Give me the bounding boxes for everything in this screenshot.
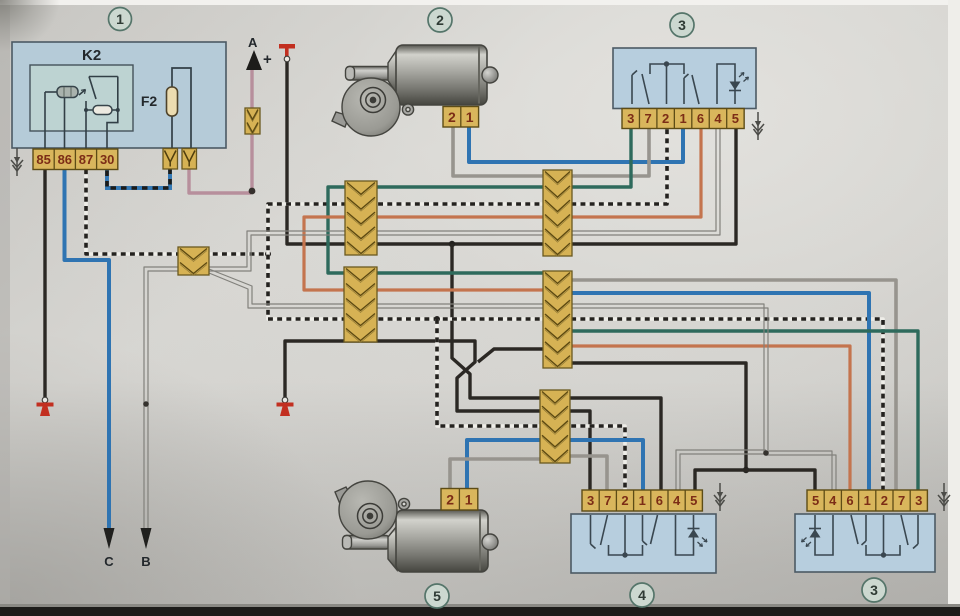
switch block 3 bottom internals (mirrored)	[802, 515, 919, 558]
wire black terminal 85 to ground	[43, 160, 46, 397]
fuse F2	[141, 87, 178, 116]
svg-text:85: 85	[36, 152, 50, 167]
wire white junction to block3b t4 (line a)	[766, 451, 832, 492]
switch block 3 top internals	[632, 61, 749, 104]
svg-text:7: 7	[604, 493, 611, 508]
relay resistor	[93, 106, 112, 115]
wire black-white switch3 t2 to main run	[268, 120, 667, 319]
connector block lower-left	[344, 267, 377, 343]
ground switch 4	[714, 483, 726, 511]
svg-text:7: 7	[645, 111, 652, 126]
ground switch 3 top	[752, 112, 764, 140]
relay K2 inner box	[30, 65, 133, 131]
wire black-white main run to block3b t2	[562, 319, 883, 492]
junction white wire B	[143, 401, 149, 407]
svg-text:2: 2	[448, 109, 456, 125]
switch 3 top terminals	[622, 109, 744, 129]
wire white junction to block3b t4 (line b)	[766, 455, 836, 492]
svg-text:K2: K2	[82, 47, 101, 64]
svg-text:1: 1	[116, 11, 124, 27]
switch block 4 box	[571, 514, 716, 573]
label circle 1	[109, 8, 132, 31]
fuse connector right	[182, 149, 197, 170]
wire black-blue terminal 30 to fuse connector	[107, 160, 170, 188]
ground switch 3 bottom	[938, 483, 950, 511]
connector block central-lower	[543, 271, 572, 369]
svg-text:86: 86	[58, 152, 72, 167]
wire white connector to CL (line b)	[209, 273, 556, 308]
motor 5 terminals 2 1	[441, 489, 478, 511]
svg-text:4: 4	[714, 111, 722, 126]
svg-text:5: 5	[732, 111, 739, 126]
svg-text:A: A	[248, 35, 258, 50]
wire pink A-arrow down	[250, 70, 253, 192]
ground body left	[37, 397, 54, 416]
wire white junction to block4 t4 (line a)	[676, 450, 766, 492]
ground block 1	[11, 148, 23, 176]
junction pink	[249, 188, 256, 195]
wire blue CL to block3b t1	[558, 293, 869, 492]
motor 2 drawing	[332, 45, 498, 136]
wire orange switch3 t6 long run	[304, 120, 701, 290]
terminal strip 85 86 87 30	[33, 149, 118, 170]
svg-text:1: 1	[639, 493, 646, 508]
wire white connector to CL (line a)	[209, 269, 556, 304]
svg-text:B: B	[141, 554, 150, 569]
label circle 3 top	[670, 13, 694, 37]
junction black at connector	[449, 241, 455, 247]
wire black CL to riser	[558, 363, 746, 470]
junction resistor left	[84, 108, 88, 112]
svg-text:2: 2	[621, 493, 628, 508]
svg-text:4: 4	[829, 493, 837, 508]
wire black-white 87 branch	[86, 160, 268, 254]
relay K2 internals	[45, 77, 118, 161]
motor 2 terminals 2 1	[443, 107, 479, 128]
svg-text:3: 3	[627, 111, 634, 126]
motor 5 drawing	[335, 481, 498, 572]
wire black coil lead to 85	[45, 92, 57, 160]
junction dashed branch	[434, 316, 440, 322]
relay coil	[57, 87, 78, 98]
wire black from T-splice to switch 3 terminal 5	[287, 60, 736, 244]
wire black-white branch to block4 t2	[437, 319, 548, 426]
svg-text:87: 87	[79, 152, 93, 167]
wire gray CL to block3b t7	[558, 280, 896, 492]
wire gray motor5 t2 to BC	[450, 459, 548, 492]
connector block central-upper	[543, 170, 572, 257]
fuse connector left	[163, 149, 178, 170]
wire black U block4-5 to block3b-5	[695, 470, 815, 492]
wire gray BC to block4 t7	[562, 456, 607, 492]
svg-text:2: 2	[446, 491, 454, 507]
node T red splice	[279, 44, 295, 62]
svg-text:F2: F2	[141, 93, 158, 109]
wire black ground branch to block 4 terminal 3	[285, 341, 548, 411]
svg-text:C: C	[104, 554, 114, 569]
label circle 4	[630, 583, 654, 607]
wire white CL to junction (line a)	[558, 304, 764, 452]
wire black stub into CL connector	[478, 349, 556, 362]
label circle 3 bottom	[862, 578, 886, 602]
svg-text:1: 1	[466, 109, 474, 125]
connector small B	[178, 247, 209, 276]
wire white CL to junction (line b)	[558, 308, 768, 450]
svg-text:6: 6	[846, 493, 853, 508]
wire white switch3 t4 to B (line a)	[144, 120, 716, 530]
svg-text:3: 3	[678, 17, 686, 33]
svg-text:5: 5	[690, 493, 697, 508]
wire gray motor2 t2 to switch3 t7	[453, 120, 649, 176]
connector block bottom-central	[540, 390, 570, 464]
wire green CL to block3b t3	[558, 331, 918, 492]
switch block 4 internals (mirrored)	[591, 515, 708, 558]
node A plus feed arrow	[246, 35, 272, 70]
wire black BC to block 4 terminal 6	[562, 398, 661, 492]
svg-text:6: 6	[697, 111, 704, 126]
fuse F2 leads	[172, 68, 191, 149]
junction dashed 87	[265, 251, 271, 257]
wire blue motor5 t1 to BC	[467, 440, 548, 492]
svg-text:4: 4	[673, 493, 681, 508]
ground body middle	[277, 397, 294, 416]
label circle 2	[428, 8, 452, 32]
svg-text:3: 3	[915, 493, 922, 508]
switch 4 terminals	[582, 490, 702, 511]
svg-text:2: 2	[436, 12, 444, 28]
svg-text:2: 2	[881, 493, 888, 508]
svg-text:30: 30	[100, 152, 114, 167]
wire black-white BC to block4 t2	[562, 426, 625, 492]
svg-text:1: 1	[465, 491, 473, 507]
svg-text:7: 7	[898, 493, 905, 508]
arrow B	[141, 528, 152, 569]
wire blue motor2 t1 to switch3 t1	[469, 120, 683, 162]
svg-text:5: 5	[433, 588, 441, 604]
svg-text:1: 1	[864, 493, 871, 508]
svg-text:3: 3	[587, 493, 594, 508]
arrow C	[104, 528, 115, 569]
wire black branch to block 4 terminal 6	[452, 244, 548, 398]
junction white wires	[763, 450, 769, 456]
svg-text:5: 5	[812, 493, 819, 508]
relay block 1 box	[12, 42, 226, 148]
switch block 3 top box	[613, 48, 756, 109]
wire blue 86 to arrow C	[65, 160, 110, 530]
wire orange CL to block3b t6	[558, 346, 850, 492]
switch 3 bottom terminals	[807, 490, 927, 511]
junction resistor right	[116, 108, 120, 112]
wire black BC to block 4 terminal 3	[562, 411, 590, 492]
svg-text:6: 6	[656, 493, 663, 508]
wire white switch3 t4 to B (line b)	[148, 120, 720, 530]
svg-text:+: +	[263, 51, 272, 68]
svg-text:4: 4	[638, 587, 646, 603]
svg-text:2: 2	[662, 111, 669, 126]
wire white junction to block4 t4 (line b)	[680, 454, 766, 492]
label circle 5	[425, 584, 449, 608]
wire blue BC to block4 t1	[562, 440, 643, 492]
connector pink feed	[245, 108, 260, 135]
wire green switch3 t3 long run	[328, 120, 631, 273]
svg-text:1: 1	[679, 111, 686, 126]
svg-text:3: 3	[870, 582, 878, 598]
switch block 3 bottom box	[795, 514, 935, 572]
wire pink to fuse connector	[189, 160, 251, 193]
junction black riser	[743, 467, 749, 473]
connector block upper-left	[345, 181, 377, 256]
